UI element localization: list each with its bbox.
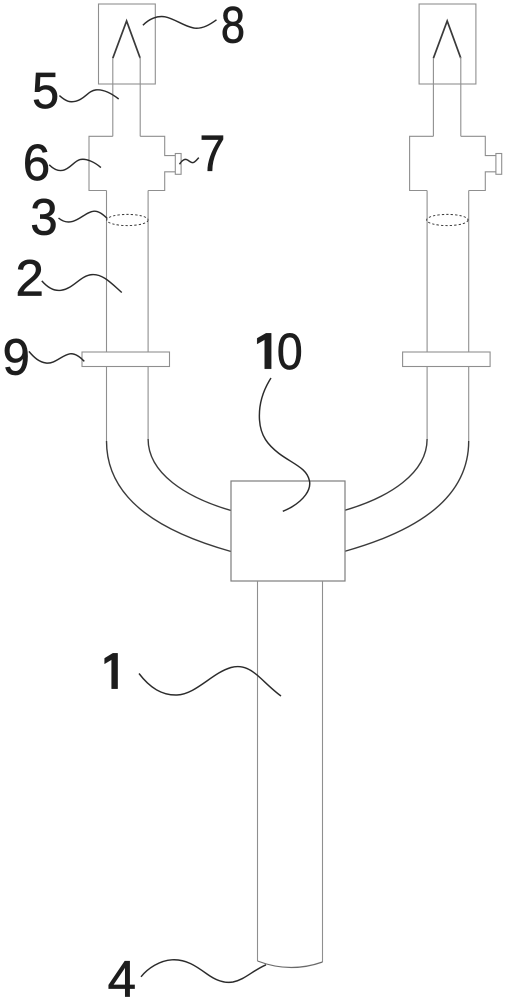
label 3: [30, 189, 57, 246]
leader to 8: [143, 17, 217, 29]
svg-text:4: 4: [108, 950, 136, 1000]
riser tube left (part 2) right wall: [147, 191, 149, 440]
nozzle neck tube right left wall: [432, 58, 434, 136]
svg-text:2: 2: [15, 249, 43, 306]
left branch outer curve wire: [107, 441, 232, 552]
right branch outer curve wire: [344, 441, 469, 552]
main stem tube (part 1) right wall: [322, 581, 324, 962]
label 6: [23, 134, 50, 191]
svg-text:9: 9: [3, 328, 30, 385]
main stem tube (part 1) left wall: [257, 581, 259, 961]
leader to 5: [59, 90, 118, 102]
needle tip right: [433, 21, 460, 58]
ignition head box left (part 8): [99, 4, 156, 84]
junction box (part 10): [231, 481, 345, 581]
leader to 6: [49, 159, 101, 170]
leader to 1: [139, 667, 281, 696]
leader to 3: [59, 211, 108, 222]
dashed mouth ellipse right: [427, 214, 468, 225]
flange collar right: [403, 352, 491, 367]
svg-text:6: 6: [23, 134, 50, 191]
flange collar left (part 9): [82, 352, 170, 367]
nozzle neck tube right right wall: [460, 57, 462, 136]
stem bottom mouth curve (part 4 end): [258, 961, 323, 968]
svg-text:0: 0: [277, 324, 303, 380]
svg-text:7: 7: [199, 126, 225, 182]
left branch inner curve wire: [148, 439, 231, 511]
right branch inner curve wire: [344, 439, 427, 511]
riser tube right left wall: [426, 191, 428, 440]
nozzle neck tube left (part 5) left wall: [112, 58, 114, 136]
svg-text:5: 5: [32, 62, 59, 119]
leader to 2: [42, 275, 122, 293]
label 4: [108, 950, 136, 1000]
leader to 4: [141, 960, 266, 983]
side port cap left (part 7): [175, 154, 181, 175]
label 9: [3, 328, 30, 385]
svg-text:3: 3: [30, 189, 57, 246]
leader to 7: [180, 158, 199, 165]
svg-text:8: 8: [221, 0, 245, 54]
valve block left (part 6): [89, 136, 175, 190]
label 5: [32, 62, 59, 119]
label 10: [257, 333, 271, 369]
label 8: [221, 0, 245, 54]
label 1: [105, 653, 118, 688]
riser tube left (part 2) left wall: [106, 191, 108, 442]
label 2: [15, 249, 43, 306]
ignition head box right: [419, 4, 476, 84]
needle tip left (inside part 8): [113, 21, 140, 58]
nozzle neck tube left (part 5) right wall: [139, 57, 141, 136]
side port cap right: [496, 154, 502, 175]
riser tube right right wall: [468, 191, 470, 442]
label 7: [199, 126, 225, 182]
leader to 9: [29, 351, 84, 363]
dashed mouth ellipse left (part 3): [107, 214, 148, 225]
leader to 10: [259, 378, 309, 511]
valve block right: [410, 136, 496, 190]
